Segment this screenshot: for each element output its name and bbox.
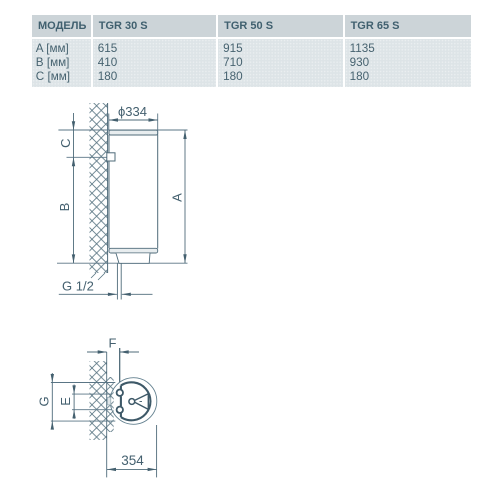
wall bracket (side view) <box>107 153 115 161</box>
wall surface line (upper) <box>91 103 108 280</box>
svg-text:G 1/2: G 1/2 <box>62 279 94 294</box>
dimension G <box>36 373 54 430</box>
bottom reference line (pipe level, extends to A dimension) <box>57 262 188 264</box>
heating element cone <box>133 394 149 410</box>
wall bracket (top view) <box>107 397 110 405</box>
bracket level line (C/B boundary) <box>67 156 112 158</box>
wall hatch (upper) <box>90 103 108 273</box>
dimension C <box>58 113 75 263</box>
svg-text:E: E <box>58 397 73 406</box>
outer shell circle (top view) <box>110 378 157 425</box>
dimension B <box>57 157 75 263</box>
wall hatch (lower) <box>90 361 107 440</box>
G reference lines (lower) <box>51 383 115 422</box>
top reference line (tank top, extends to A dimension) <box>58 129 187 131</box>
inlet pipe <box>117 264 121 300</box>
svg-text:C: C <box>58 139 73 148</box>
dimension A <box>169 130 186 263</box>
dimension G 1/2 (pipe thread) <box>59 279 153 297</box>
tank bottom cap (trapezoid) <box>116 253 150 263</box>
svg-text:F: F <box>109 336 117 351</box>
E reference lines (lower) <box>72 394 119 410</box>
dimension F <box>87 336 139 390</box>
dimension phi334 <box>109 104 158 135</box>
inner tank circle with mounting profile <box>117 382 151 420</box>
svg-text:ϕ334: ϕ334 <box>118 104 147 119</box>
svg-text:354: 354 <box>121 453 144 468</box>
spec table <box>32 15 471 87</box>
dimension 354 <box>107 425 157 477</box>
svg-text:A: A <box>169 193 184 202</box>
wall hatch overhang at bracket <box>107 377 114 432</box>
thermostat pocket circle <box>129 399 142 405</box>
wall surface line (lower, also 354 left extension) <box>106 352 108 477</box>
svg-text:B: B <box>57 203 72 212</box>
svg-text:G: G <box>36 396 51 406</box>
tank body (side view) <box>109 130 158 253</box>
dimension E <box>58 385 76 419</box>
